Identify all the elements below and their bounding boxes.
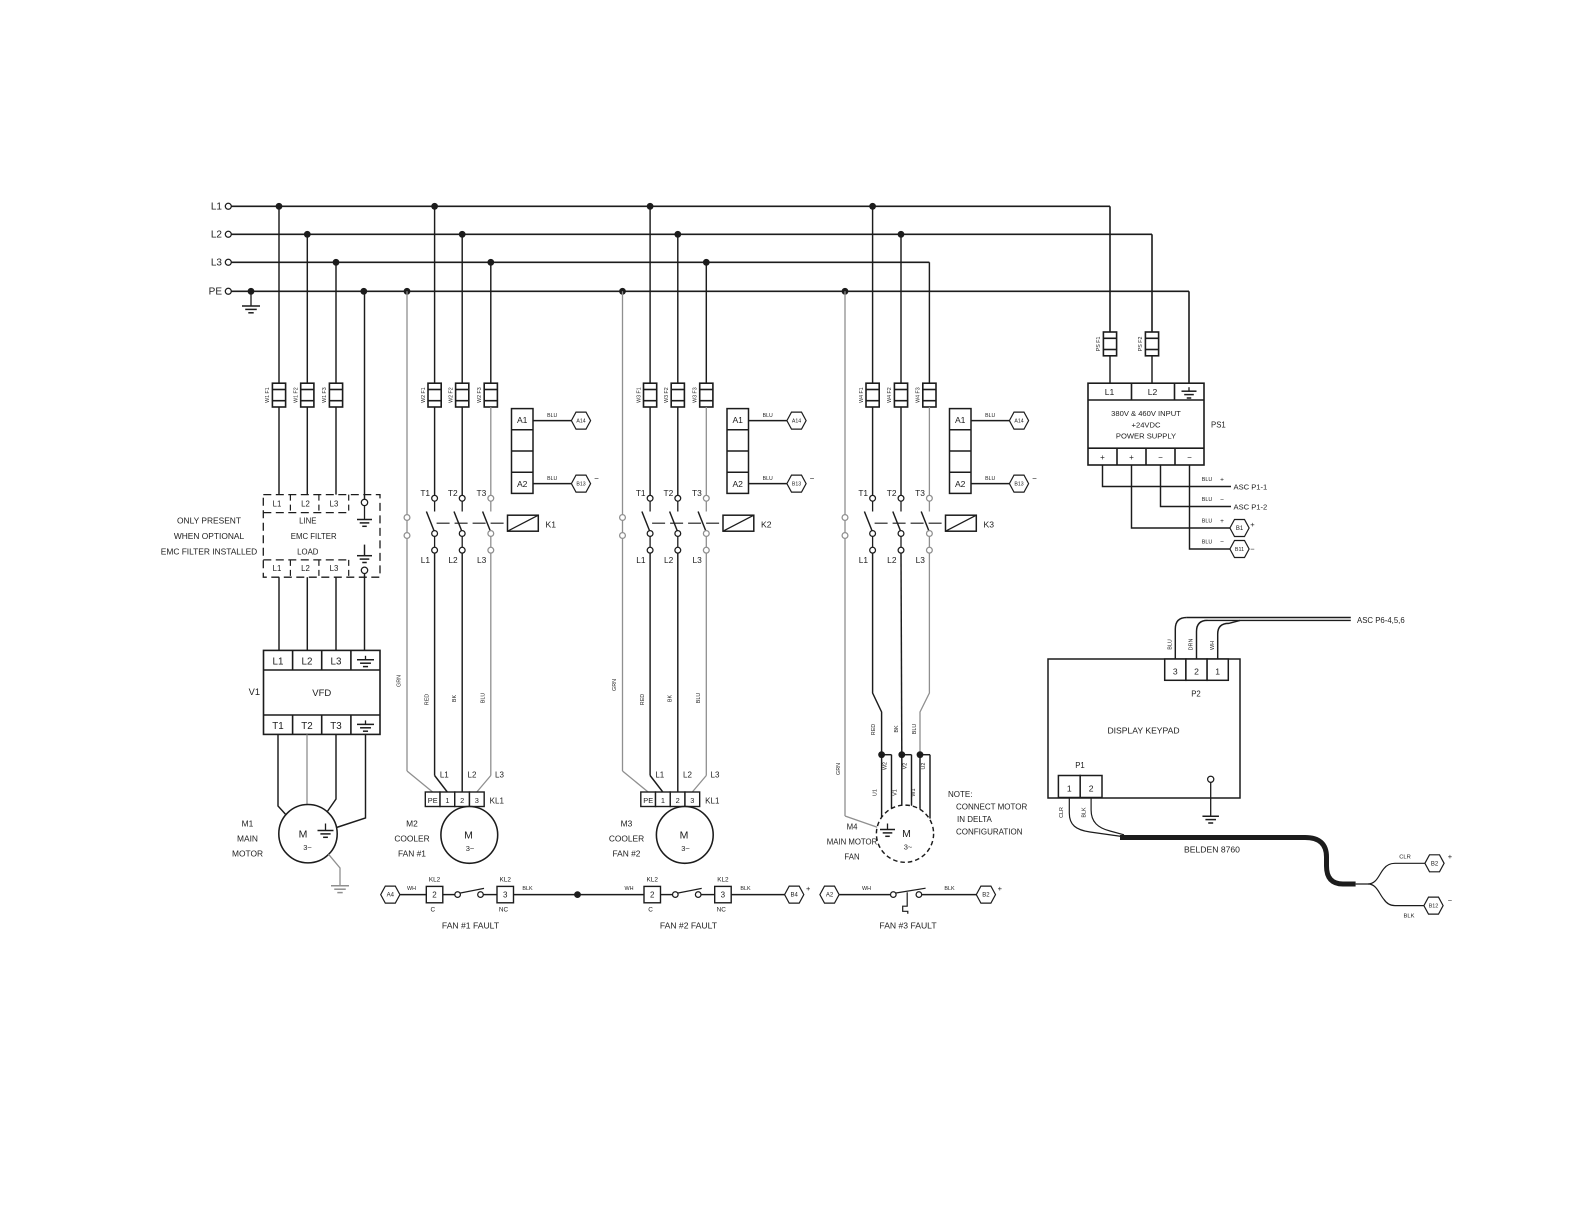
svg-text:WH: WH	[1210, 641, 1216, 650]
fuse W2 F1	[421, 383, 441, 407]
wire L3 bus	[231, 261, 929, 263]
svg-text:KL1: KL1	[705, 797, 720, 806]
node B13 (K1)	[571, 474, 599, 492]
svg-text:KL2: KL2	[500, 877, 512, 884]
node B13 (K2)	[787, 474, 815, 492]
junction L1 x650	[647, 203, 654, 210]
svg-text:A14: A14	[576, 419, 585, 425]
wire W4 F2 to contact	[900, 407, 902, 495]
wire P1-2 (BLK)	[1082, 798, 1125, 835]
fuse W1 F1	[265, 383, 285, 407]
svg-text:L2: L2	[211, 230, 223, 241]
connector P1	[1058, 776, 1102, 798]
svg-text:V1: V1	[249, 687, 260, 697]
svg-text:+: +	[806, 884, 811, 893]
wire delta V1	[901, 755, 903, 806]
wire L1 to PS F1	[1109, 206, 1111, 332]
svg-text:RED: RED	[871, 724, 877, 735]
svg-text:FAN #3 FAULT: FAN #3 FAULT	[879, 921, 937, 931]
svg-text:COOLER: COOLER	[394, 834, 429, 844]
switch fan3 thermal contact	[891, 888, 926, 914]
motor M3 cooler fan 2	[656, 807, 713, 864]
wire delta U2	[920, 755, 930, 819]
svg-text:BLK: BLK	[1082, 807, 1088, 818]
svg-text:A14: A14	[792, 419, 801, 425]
svg-text:L2: L2	[887, 555, 897, 565]
wire W3 L1 drop	[649, 206, 651, 383]
wire delta U1	[881, 755, 883, 818]
fuse W1 F2	[294, 383, 314, 407]
contactor K3 pole T3	[915, 488, 932, 553]
svg-text:1: 1	[1067, 784, 1072, 794]
fuse PS F1	[1096, 332, 1116, 356]
terminal KL2-2 (C) fan1	[426, 877, 443, 914]
wire W3 F1 to contact	[649, 407, 651, 495]
contactor K1 pole T2	[448, 488, 465, 553]
svg-text:FAN #1: FAN #1	[398, 848, 426, 858]
wire EMC earth to VFD	[364, 574, 366, 651]
svg-text:W2 F3: W2 F3	[477, 387, 483, 403]
svg-text:B2: B2	[1431, 861, 1439, 867]
svg-text:FAN: FAN	[844, 852, 859, 861]
svg-text:K2: K2	[761, 520, 772, 530]
ground M1	[331, 886, 349, 893]
svg-text:BLU: BLU	[696, 693, 702, 704]
fuse W3 F3	[693, 383, 713, 407]
fuse W2 F2	[448, 383, 468, 407]
junction delta phase 2	[898, 751, 905, 758]
svg-text:BLU: BLU	[912, 724, 918, 735]
label M3 COOLER FAN #2	[609, 819, 644, 859]
svg-text:+: +	[1250, 520, 1255, 529]
switch fan1 fault contact	[455, 888, 484, 897]
svg-text:W1: W1	[911, 789, 917, 797]
power supply PS1	[1088, 383, 1204, 465]
switch fan2 fault contact	[673, 888, 702, 897]
svg-text:L3: L3	[330, 499, 339, 508]
wire P2-2 (DRN)	[1189, 620, 1208, 659]
svg-text:+: +	[1220, 518, 1224, 525]
svg-text:U1: U1	[872, 789, 878, 796]
svg-text:GRN: GRN	[836, 763, 842, 775]
svg-text:NC: NC	[499, 907, 509, 914]
svg-text:L1: L1	[273, 499, 282, 508]
svg-text:+: +	[1129, 453, 1134, 462]
svg-text:C: C	[430, 907, 435, 914]
svg-text:A2: A2	[732, 479, 743, 489]
wire fan3 BLU to delta node (grey)	[912, 553, 929, 755]
fuse W4 F3	[916, 383, 936, 407]
node A14 (K3)	[1009, 412, 1028, 429]
svg-text:B2: B2	[982, 893, 990, 899]
node A2	[820, 886, 839, 903]
fuse W4 F2	[887, 383, 907, 407]
contactor K3 coil terminals A1/A2	[950, 409, 972, 494]
svg-text:T3: T3	[330, 721, 342, 732]
terminal KL2-3 (NC) fan2	[715, 877, 732, 914]
svg-text:3~: 3~	[681, 844, 690, 853]
wire W2 L2 drop	[461, 234, 463, 383]
svg-text:B4: B4	[791, 893, 799, 899]
svg-text:380V & 460V INPUT: 380V & 460V INPUT	[1111, 409, 1181, 418]
wire K1 A2 to node (BLU)	[533, 476, 571, 483]
wire M1 to earth (grey)	[329, 854, 341, 885]
label M2 COOLER FAN #1	[394, 819, 429, 859]
contactor K2 linkage	[652, 522, 723, 524]
contactor K1 coil terminals A1/A2	[512, 409, 534, 494]
svg-text:L3: L3	[711, 771, 720, 780]
wire W4 F1 to contact	[872, 407, 874, 495]
svg-text:L1: L1	[211, 202, 223, 213]
svg-text:MAIN: MAIN	[237, 834, 258, 844]
svg-text:MOTOR: MOTOR	[232, 848, 263, 858]
wire VFD T2 to motor (grey)	[306, 734, 308, 805]
svg-text:M4: M4	[847, 823, 858, 832]
ground keypad	[1202, 816, 1219, 823]
svg-text:3: 3	[503, 891, 508, 900]
node A14 (K2)	[787, 412, 806, 429]
svg-text:−: −	[1187, 453, 1192, 462]
svg-text:W4 F1: W4 F1	[859, 387, 865, 403]
svg-text:L1: L1	[636, 555, 646, 565]
svg-text:COOLER: COOLER	[609, 834, 644, 844]
wire GRN fan2 from PE	[612, 291, 648, 792]
svg-text:W1 F2: W1 F2	[294, 387, 300, 403]
svg-text:ASC P1-2: ASC P1-2	[1234, 503, 1268, 512]
svg-text:+: +	[1100, 453, 1105, 462]
display keypad	[1048, 659, 1240, 798]
svg-text:3~: 3~	[303, 843, 312, 852]
svg-text:W4 F3: W4 F3	[916, 387, 922, 403]
wire GRN fan1 from PE	[397, 291, 433, 792]
svg-text:DISPLAY KEYPAD: DISPLAY KEYPAD	[1107, 726, 1179, 736]
fuse W4 F1	[859, 383, 879, 407]
wire W2 F2 to contact	[461, 407, 463, 495]
contactor K1 coil	[508, 515, 557, 531]
wire W4 L3 drop	[928, 262, 930, 383]
wire fan1 RED to KL1-1	[425, 553, 448, 792]
wire VFD T3 to motor	[327, 734, 336, 812]
wire EMC L1 to VFD	[278, 577, 280, 650]
svg-text:M: M	[902, 828, 911, 840]
svg-text:L2: L2	[301, 499, 310, 508]
svg-text:−: −	[1220, 539, 1224, 546]
svg-text:W2 F1: W2 F1	[421, 387, 427, 403]
svg-text:−: −	[1032, 474, 1037, 483]
wire fan1 BLU to KL1-3 (grey)	[477, 553, 491, 792]
svg-text:BLK: BLK	[522, 886, 533, 892]
svg-text:L2: L2	[301, 564, 310, 573]
svg-text:M: M	[680, 829, 689, 841]
svg-text:MAIN MOTOR: MAIN MOTOR	[827, 838, 878, 847]
wire K3 A2 to node (BLU)	[971, 476, 1009, 483]
node B11	[1230, 541, 1255, 558]
contactor K2 pole T2	[664, 488, 681, 553]
wire PS1 + to node B1 (BLU +)	[1132, 465, 1230, 528]
contactor K1 pole T1	[420, 488, 437, 553]
note: only present when optional EMC filter installed	[161, 516, 257, 557]
wire W1 L3 drop	[335, 262, 337, 383]
svg-text:DRN: DRN	[1189, 639, 1195, 651]
svg-text:EMC FILTER INSTALLED: EMC FILTER INSTALLED	[161, 547, 257, 557]
svg-text:W3 F3: W3 F3	[693, 387, 699, 403]
wire PS F1 to PS1	[1109, 356, 1111, 383]
junction L2 x901	[898, 231, 905, 238]
svg-text:KL2: KL2	[717, 877, 729, 884]
svg-text:2: 2	[676, 796, 680, 805]
wire W1 L1 drop	[278, 206, 280, 383]
svg-text:BLU: BLU	[763, 413, 773, 419]
node B2 (keypad)	[1425, 852, 1453, 872]
VFD V1	[264, 650, 381, 734]
svg-text:L2: L2	[302, 657, 313, 668]
svg-text:NOTE:: NOTE:	[948, 790, 972, 799]
svg-text:B12: B12	[1429, 904, 1439, 910]
wire cable split to B2 (CLR)	[1356, 855, 1425, 885]
svg-text:T2: T2	[301, 721, 312, 732]
svg-text:BLU: BLU	[985, 413, 995, 419]
svg-text:L3: L3	[330, 564, 339, 573]
svg-text:L1: L1	[273, 564, 282, 573]
node B1	[1230, 520, 1255, 537]
contactor K1 pole T3	[477, 488, 494, 553]
wire A4 to KL2-2 (WH)	[400, 886, 426, 895]
svg-text:BLU: BLU	[1202, 497, 1213, 503]
svg-text:M: M	[299, 828, 308, 840]
svg-text:V1: V1	[893, 789, 899, 796]
wire W2 L3 drop	[490, 262, 492, 383]
wire cable split to B12 (BLK)	[1368, 884, 1424, 920]
wire K1 A1 to node (BLU)	[533, 413, 571, 420]
svg-text:PE: PE	[643, 796, 653, 805]
svg-text:W2 F2: W2 F2	[448, 387, 454, 403]
junction PE x845	[842, 288, 849, 295]
svg-text:BELDEN 8760: BELDEN 8760	[1184, 845, 1240, 855]
svg-text:W1 F1: W1 F1	[265, 387, 271, 403]
pin labels above KL1 fan1	[440, 771, 505, 780]
wire W2 L1 drop	[434, 206, 436, 383]
svg-text:K1: K1	[546, 520, 557, 530]
svg-text:K3: K3	[984, 520, 995, 530]
svg-text:T2: T2	[664, 488, 674, 498]
svg-text:2: 2	[650, 891, 655, 900]
svg-text:GRN: GRN	[397, 675, 403, 687]
svg-text:L2: L2	[448, 555, 458, 565]
svg-text:3: 3	[690, 796, 694, 805]
svg-text:A2: A2	[955, 479, 966, 489]
svg-text:L1: L1	[440, 771, 449, 780]
wire PS F2 to PS1	[1151, 356, 1153, 383]
svg-text:CLR: CLR	[1399, 855, 1411, 861]
connector P2	[1165, 659, 1229, 680]
wire delta W1	[919, 755, 921, 809]
wire K2 A1 to node (BLU)	[749, 413, 787, 420]
wire fan2 RED to KL1-1	[640, 553, 663, 792]
wire KL2-3 fan1 to junction (BLK)	[514, 886, 578, 895]
wire A2 to thermal switch (WH)	[839, 886, 890, 895]
wire PS1 - to node B11 (BLU -)	[1190, 465, 1230, 549]
svg-text:W3 F1: W3 F1	[636, 387, 642, 403]
svg-text:GRN: GRN	[612, 679, 618, 691]
terminal strip KL1 (fan1)	[425, 792, 504, 807]
wire KL2-3 fan2 to node B4 (BLK)	[731, 886, 784, 895]
wire P2-3 (BLU)	[1168, 618, 1187, 660]
svg-text:2: 2	[460, 796, 464, 805]
svg-text:WH: WH	[625, 886, 634, 892]
svg-text:3: 3	[475, 796, 479, 805]
wire L2 to PS F2	[1151, 234, 1153, 332]
wire VFD earth to motor	[337, 734, 366, 827]
svg-text:3: 3	[1173, 667, 1178, 677]
junction L2 x462	[459, 231, 466, 238]
wire fan3 BK to delta node	[894, 553, 902, 755]
svg-text:L1: L1	[655, 771, 664, 780]
svg-text:BK: BK	[452, 695, 458, 703]
svg-text:L1: L1	[1105, 387, 1115, 397]
svg-text:A1: A1	[732, 415, 743, 425]
svg-text:BLK: BLK	[740, 886, 751, 892]
wire L2 bus	[231, 233, 1152, 235]
wire GRN fan3 from PE	[836, 291, 878, 827]
motor M2 cooler fan 1	[441, 807, 498, 864]
svg-text:WH: WH	[407, 886, 416, 892]
svg-text:BLU: BLU	[1168, 639, 1174, 650]
node A14 (K1)	[571, 412, 590, 429]
wire P2-1 (WH)	[1210, 620, 1240, 659]
wire PS1 + to ASC P1-1 (BLU +)	[1103, 465, 1232, 487]
svg-text:LINE: LINE	[299, 517, 316, 526]
svg-text:T2: T2	[448, 488, 458, 498]
terminal KL2-2 (C) fan2	[644, 877, 661, 914]
svg-text:BLU: BLU	[763, 476, 773, 482]
svg-text:L1: L1	[273, 657, 284, 668]
junction L2 x677	[674, 231, 681, 238]
svg-text:B13: B13	[576, 482, 585, 488]
fuse W3 F2	[664, 383, 684, 407]
svg-text:BLU: BLU	[547, 476, 557, 482]
svg-text:1: 1	[1215, 667, 1220, 677]
svg-text:POWER SUPPLY: POWER SUPPLY	[1116, 432, 1176, 441]
wire W3 F3 to contact (grey BLU)	[705, 407, 707, 495]
svg-text:A1: A1	[955, 415, 966, 425]
svg-text:NC: NC	[717, 907, 727, 914]
svg-text:BLU: BLU	[1202, 540, 1213, 546]
svg-text:L3: L3	[692, 555, 702, 565]
svg-text:PS F1: PS F1	[1096, 336, 1102, 351]
svg-text:CONFIGURATION: CONFIGURATION	[956, 828, 1023, 837]
wire W3 F2 to contact	[677, 407, 679, 495]
wire VFD T1 to motor	[278, 734, 288, 817]
keypad earth terminal	[1208, 776, 1214, 816]
svg-text:BK: BK	[668, 695, 674, 703]
wire switch to KL2-3 fan2	[701, 894, 715, 896]
junction PE x622	[619, 288, 626, 295]
svg-text:3~: 3~	[904, 843, 913, 852]
svg-text:V2: V2	[902, 763, 908, 770]
svg-text:2: 2	[1194, 667, 1199, 677]
wire W3 L3 drop	[705, 262, 707, 383]
svg-text:WH: WH	[862, 886, 871, 892]
cable BELDEN 8760	[1120, 838, 1356, 885]
svg-text:−: −	[1448, 896, 1453, 905]
contactor K3 pole T1	[858, 488, 875, 553]
junction L1 x872	[869, 203, 876, 210]
svg-text:A2: A2	[517, 479, 528, 489]
svg-text:A2: A2	[826, 893, 834, 899]
svg-text:L1: L1	[859, 555, 869, 565]
svg-text:LOAD: LOAD	[297, 548, 319, 557]
svg-text:2: 2	[432, 891, 437, 900]
svg-text:KL2: KL2	[647, 877, 659, 884]
svg-text:ONLY PRESENT: ONLY PRESENT	[177, 516, 241, 526]
svg-text:T3: T3	[915, 488, 925, 498]
svg-text:−: −	[1158, 453, 1163, 462]
contactor K3 coil	[946, 515, 995, 531]
wire delta W2	[882, 755, 892, 809]
fuse PS F2	[1138, 332, 1158, 356]
wire switch to node B2 (BLK)	[922, 886, 977, 895]
contactor K1 linkage	[437, 522, 508, 524]
wire fan1 BK to KL1-2	[452, 553, 462, 792]
svg-text:T1: T1	[636, 488, 646, 498]
svg-text:−: −	[1220, 497, 1224, 504]
contactor K2 coil	[723, 515, 772, 531]
svg-text:WHEN OPTIONAL: WHEN OPTIONAL	[174, 531, 245, 541]
svg-text:L3: L3	[495, 771, 504, 780]
wire W1 L2 drop	[306, 234, 308, 383]
svg-text:BLU: BLU	[481, 693, 487, 704]
svg-text:1: 1	[661, 796, 665, 805]
svg-text:C: C	[648, 907, 653, 914]
svg-text:EMC FILTER: EMC FILTER	[291, 532, 337, 541]
label M4 MAIN MOTOR FAN	[827, 823, 878, 862]
wire EMC L3 to VFD	[335, 577, 337, 650]
junction fault bus	[574, 891, 581, 898]
wire W2 F1 to contact	[434, 407, 436, 495]
svg-text:PS F2: PS F2	[1138, 336, 1144, 351]
svg-text:1: 1	[445, 796, 449, 805]
ground PE bus	[242, 306, 260, 313]
terminal KL2-3 (NC) fan1	[497, 877, 514, 914]
node B2	[976, 884, 1002, 903]
svg-text:M3: M3	[621, 819, 633, 829]
svg-text:BLK: BLK	[1404, 914, 1415, 920]
wire delta V2	[902, 755, 912, 806]
node A4	[381, 886, 400, 903]
svg-text:T3: T3	[692, 488, 702, 498]
wire W3 L2 drop	[677, 234, 679, 383]
svg-text:L2: L2	[1148, 387, 1158, 397]
motor M4 main motor fan	[876, 805, 933, 862]
wire K3 A1 to node (BLU)	[971, 413, 1009, 420]
junction PE x407	[404, 288, 411, 295]
EMC line-side earth terminal	[357, 499, 372, 526]
svg-text:A1: A1	[517, 415, 528, 425]
svg-text:VFD: VFD	[312, 688, 331, 699]
wire W2 F3 to contact (grey BLU)	[490, 407, 492, 495]
svg-text:BLU: BLU	[547, 413, 557, 419]
cable to ASC P6-4,5,6	[1187, 618, 1351, 621]
svg-text:L2: L2	[683, 771, 692, 780]
fuse W3 F1	[636, 383, 656, 407]
wire EMC L2 to VFD	[306, 577, 308, 650]
svg-text:CONNECT MOTOR: CONNECT MOTOR	[956, 803, 1027, 812]
svg-text:W2: W2	[882, 762, 888, 770]
wire PS1 - to ASC P1-2 (BLU -)	[1161, 465, 1232, 507]
svg-text:CLR: CLR	[1059, 807, 1065, 818]
wire W4 L2 drop	[900, 234, 902, 383]
svg-text:+: +	[1448, 852, 1453, 861]
